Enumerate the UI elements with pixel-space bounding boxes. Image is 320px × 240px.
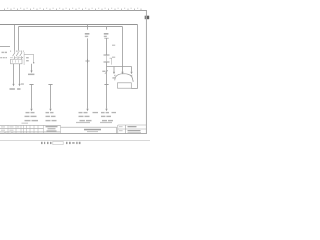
leader line at left xyxy=(0,46,10,48)
bus L2 xyxy=(19,26,123,28)
arrow x31 bottom xyxy=(30,109,32,112)
label -F2 left of overload xyxy=(0,57,7,58)
middle cell text xyxy=(46,126,58,132)
ruler tick marks xyxy=(5,9,142,11)
overload relay F2 box xyxy=(11,59,23,64)
wire: left drop of bus L2 xyxy=(18,27,20,51)
arrow terminal U xyxy=(12,84,14,87)
plug pin 1 xyxy=(113,67,115,72)
viewer footer separator xyxy=(0,140,150,142)
wire x50 to bottom xyxy=(50,85,52,109)
sheet bottom border xyxy=(0,133,147,135)
destination labels cluster D xyxy=(101,112,116,121)
plug pin 2 xyxy=(121,72,123,75)
motor terminal labels xyxy=(10,88,15,90)
destination labels cluster A xyxy=(25,112,39,121)
label note right of x106 upper xyxy=(112,45,115,46)
label below arrow x31 xyxy=(28,74,34,76)
wire: right riser from bus L1 down to socket link xyxy=(137,25,139,89)
revision table cell text xyxy=(1,123,28,134)
socket body box xyxy=(118,83,132,88)
tee line to plug pins xyxy=(107,66,132,68)
footer nav buttons right xyxy=(66,142,81,144)
label K1 xyxy=(102,71,105,72)
tick on x106 xyxy=(104,37,108,39)
contact K1 on x106 xyxy=(105,70,108,74)
auxiliary bracket line xyxy=(23,52,25,65)
wire from overload to PE arrow xyxy=(31,64,33,71)
wire to motor V xyxy=(19,64,21,84)
centre section company text xyxy=(84,129,101,132)
footer page field xyxy=(53,141,63,144)
destination labels cluster C xyxy=(79,112,99,121)
wire x31 to bottom xyxy=(31,85,33,109)
ruler column numbers xyxy=(7,8,138,9)
sheet right border xyxy=(145,11,147,134)
destination labels cluster B xyxy=(46,112,57,121)
wire x106 upper xyxy=(106,38,108,55)
extra faint row C/D xyxy=(76,122,112,123)
aux contact numbers 21 22 xyxy=(26,57,29,58)
centre section top line xyxy=(61,127,117,133)
terminal T-bar x106 xyxy=(104,84,108,86)
pin numbers of Q1 xyxy=(10,51,24,52)
x-mark lower right of dome xyxy=(132,80,134,81)
branch F4 stub from bus L2 xyxy=(106,27,108,30)
wire: drop x122 from bus L2 to plug xyxy=(122,27,124,73)
plug pin 3 xyxy=(131,67,133,72)
footer nav buttons xyxy=(41,142,52,144)
title block: horizontal lines xyxy=(0,125,61,132)
capacitor plate top xyxy=(104,54,110,56)
wire x106 lower xyxy=(106,62,108,109)
wire x87 long drop xyxy=(87,38,89,108)
terminal T-bar x31 xyxy=(29,84,33,86)
label -Q1 xyxy=(2,52,8,53)
sheet number label top-right xyxy=(145,16,150,20)
junction cross on x87 xyxy=(85,59,89,63)
x-mark left of dome xyxy=(114,75,116,76)
wire: tap x14 from bus L1 xyxy=(14,25,16,51)
capacitor body line xyxy=(106,55,108,62)
terminal T-bar x50 xyxy=(48,84,52,86)
x-mark junction right of link xyxy=(22,57,23,58)
mechanical link dashes xyxy=(10,57,21,59)
right info box xyxy=(118,125,147,134)
socket dome X2 xyxy=(115,74,133,81)
fuse F4 label xyxy=(104,33,109,35)
aux contact frame right xyxy=(24,54,33,62)
x-mark right of dome xyxy=(131,75,133,76)
node dot xyxy=(33,62,34,63)
sheet top border xyxy=(0,10,147,12)
revision table dividers xyxy=(8,125,61,133)
wire to motor U xyxy=(13,64,15,84)
branch F3 stub from bus L1 xyxy=(87,25,89,30)
arrow x31 upper xyxy=(30,71,32,74)
bleed resistor bracket xyxy=(110,58,112,64)
bus L1 xyxy=(0,24,138,26)
underline in right box xyxy=(128,131,142,133)
fuse F3 label xyxy=(85,33,90,35)
label left of dome xyxy=(112,77,115,78)
label right of arrow V xyxy=(21,83,24,84)
arrow x50 bottom xyxy=(49,109,51,112)
arrow x106 bottom xyxy=(105,109,107,112)
label note right of x106 mid xyxy=(112,57,115,58)
right info box text xyxy=(119,126,141,131)
capacitor plate bottom xyxy=(104,61,110,63)
arrow x87 bottom xyxy=(86,109,88,112)
overload heater marks xyxy=(13,60,19,62)
switch Q1 contact poles xyxy=(13,51,22,60)
arrow terminal V xyxy=(18,84,20,87)
link wire from socket to riser xyxy=(131,88,137,90)
